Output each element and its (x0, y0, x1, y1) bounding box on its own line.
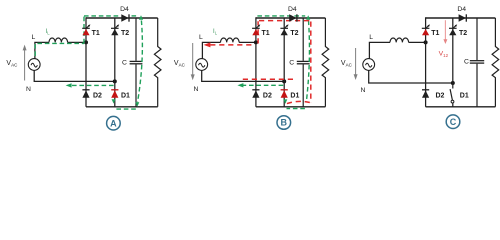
svg-text:N: N (26, 86, 31, 93)
wire phase (202, 42, 220, 58)
svg-text:B: B (281, 118, 288, 128)
label T1 (262, 30, 270, 37)
svg-text:T1: T1 (262, 30, 270, 37)
label C (122, 60, 127, 67)
transistor T2 (111, 24, 119, 35)
svg-text:D2: D2 (436, 92, 445, 99)
label C (289, 60, 294, 67)
green current path (up T1 leg) (83, 16, 85, 44)
svg-text:C: C (122, 60, 127, 67)
panel label C (446, 115, 460, 129)
diode D2 (82, 90, 89, 98)
red current path (down right) (310, 22, 312, 103)
label D4 (288, 6, 297, 13)
resistor load (154, 18, 161, 107)
transistor T2 (280, 24, 288, 35)
wire T1-D2 leg (255, 17, 257, 107)
green current path (bottom) (287, 108, 305, 110)
wire cap leg (302, 18, 304, 61)
transistor T1 (422, 24, 430, 35)
svg-text:D1: D1 (460, 92, 469, 99)
green current path (N return) (242, 84, 284, 86)
wire (302, 64, 304, 106)
node L-junction (424, 40, 428, 44)
label T2 (121, 30, 129, 37)
svg-text:D2: D2 (93, 92, 102, 99)
label N (194, 86, 199, 93)
green current path (after D4) (132, 15, 139, 17)
svg-text:D4: D4 (457, 6, 466, 13)
svg-text:D4: D4 (288, 6, 297, 13)
label VAC (341, 60, 353, 68)
label D4 (457, 6, 466, 13)
node L-junction (254, 40, 258, 44)
label D2 (93, 92, 102, 99)
green arrow left (66, 83, 72, 87)
green arrow left (237, 83, 243, 87)
wire bottom rail (256, 106, 326, 108)
red current path (below top rail) (259, 20, 309, 22)
label T1 (92, 30, 100, 37)
wire cap leg (135, 18, 137, 61)
label T2 (290, 30, 298, 37)
red current path (to D1) (286, 101, 310, 103)
svg-text:L: L (199, 34, 203, 41)
label N (26, 86, 31, 93)
node N-junction (282, 79, 286, 83)
voltage arrow V12 (443, 20, 447, 44)
wire bottom rail (86, 106, 158, 108)
panel label B (277, 116, 291, 130)
wire bottom rail (426, 106, 496, 108)
svg-text:T1: T1 (92, 30, 100, 37)
svg-text:C: C (450, 117, 457, 127)
capacitor C (297, 61, 310, 63)
green current path (bottom) (115, 108, 135, 110)
svg-text:T2: T2 (459, 30, 467, 37)
label IL (213, 28, 218, 36)
label L (32, 34, 36, 41)
wire top rail (256, 17, 326, 19)
wire T1-D2 leg (425, 17, 427, 107)
resistor load (492, 18, 499, 107)
wire (409, 41, 426, 43)
label D1 (290, 92, 299, 99)
svg-text:T2: T2 (121, 30, 129, 37)
green current path (down cap branch) (306, 21, 309, 103)
label VAC (6, 60, 18, 68)
label T2 (459, 30, 467, 37)
diode D1 (111, 90, 118, 98)
diode D1 (281, 90, 288, 98)
diode D4 (289, 14, 297, 21)
red current path (up T1 leg) (257, 21, 259, 43)
svg-text:D2: D2 (263, 92, 272, 99)
red current path (L wire) (210, 44, 255, 46)
inductor L (390, 38, 409, 42)
transistor T1 (82, 24, 90, 35)
label D2 (263, 92, 272, 99)
resistor load (322, 18, 329, 107)
wire T1-D2 leg (85, 17, 87, 107)
label N (361, 87, 366, 94)
red current path (N return) (241, 78, 293, 80)
inductor L (221, 38, 240, 42)
label V12 (439, 50, 449, 58)
wire D1 stub (452, 103, 454, 107)
wire T2 leg (452, 18, 454, 83)
wire (239, 41, 256, 43)
wire (68, 41, 86, 43)
capacitor C (130, 61, 143, 63)
label IL (45, 28, 50, 36)
svg-text:D4: D4 (120, 6, 129, 13)
node L-junction (84, 40, 88, 44)
AC source (196, 59, 208, 71)
label D1 (460, 92, 469, 99)
green current path (top rail) (257, 15, 305, 17)
AC source (363, 59, 375, 71)
svg-text:D1: D1 (121, 92, 130, 99)
label T1 (431, 30, 439, 37)
inductor L (49, 38, 68, 42)
green current path (source to L) (35, 43, 84, 56)
green arrow down (135, 102, 139, 106)
label D1 (121, 92, 130, 99)
VAC reference arrow (down) (191, 43, 195, 80)
svg-text:N: N (361, 87, 366, 94)
diode D2 (252, 90, 259, 98)
diode D4 (459, 14, 467, 21)
label D4 (120, 6, 129, 13)
transistor T1 (252, 24, 260, 35)
wire T2-D1 leg (114, 18, 116, 107)
wire phase (35, 42, 49, 58)
svg-text:T2: T2 (290, 30, 298, 37)
capacitor C (470, 61, 484, 63)
green arrow down at D1 (112, 99, 116, 103)
VAC reference arrow (down) (354, 48, 358, 80)
wire neutral (369, 70, 453, 83)
label L (369, 34, 373, 41)
AC source (28, 59, 40, 71)
wire top rail (426, 17, 496, 19)
wire neutral (202, 70, 285, 81)
transistor T2 (449, 24, 457, 35)
label C (464, 58, 469, 65)
red arrow left (204, 42, 211, 47)
svg-text:L: L (369, 34, 373, 41)
green current path (N return) (69, 84, 114, 86)
green arrow up (139, 15, 143, 20)
green arrow down at D1 (283, 99, 287, 103)
svg-text:C: C (289, 60, 294, 67)
wire T2-D1 leg (283, 18, 285, 107)
wire (135, 64, 137, 106)
label D2 (436, 92, 445, 99)
diode D4 (121, 14, 129, 21)
green current path (down cap branch) (138, 21, 143, 103)
green current path (top rail) (84, 15, 120, 17)
wire top rail (86, 17, 158, 19)
svg-text:N: N (194, 86, 199, 93)
node N-junction (113, 79, 117, 83)
node N-junction (451, 81, 455, 85)
svg-text:D1: D1 (290, 92, 299, 99)
wire neutral (34, 70, 115, 81)
diode D2 (422, 90, 429, 98)
svg-text:A: A (110, 118, 117, 128)
wire (476, 64, 478, 107)
wire cap leg (476, 18, 478, 60)
svg-text:L: L (32, 34, 36, 41)
wire phase (369, 42, 390, 58)
svg-text:C: C (464, 58, 469, 65)
panel label A (107, 116, 121, 130)
label VAC (174, 60, 186, 68)
label L (199, 34, 203, 41)
svg-text:T1: T1 (431, 30, 439, 37)
green arrow up (306, 15, 310, 20)
switch D1 (open) (450, 83, 454, 103)
VAC reference arrow (up) (23, 45, 27, 81)
